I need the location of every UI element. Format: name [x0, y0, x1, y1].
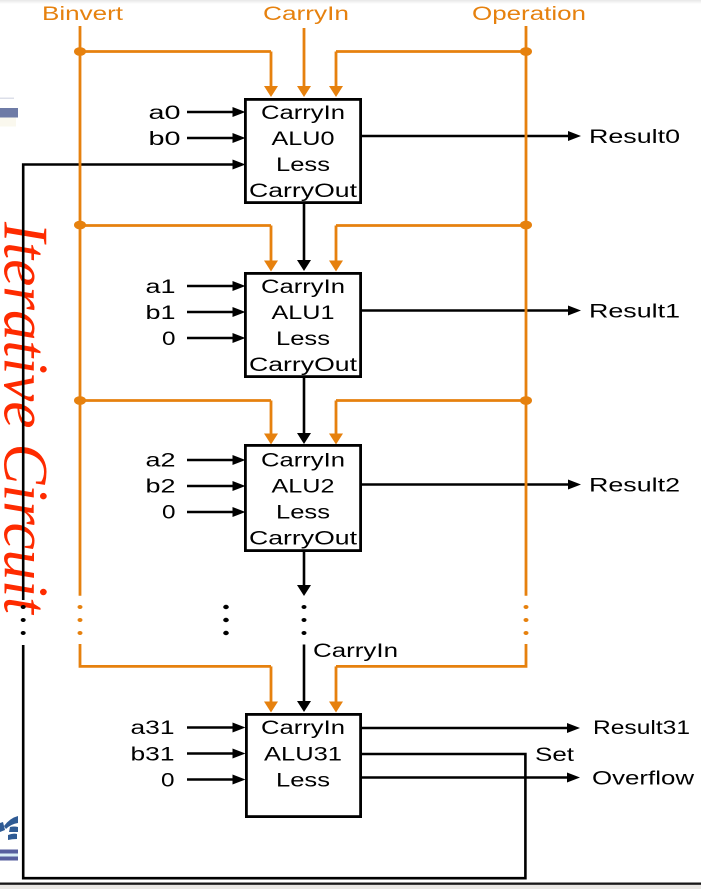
svg-text:ALU2: ALU2: [272, 477, 335, 498]
svg-text:ALU0: ALU0: [272, 129, 335, 150]
svg-text:b2: b2: [146, 477, 176, 498]
svg-text:b31: b31: [131, 745, 175, 766]
svg-text:0: 0: [162, 329, 176, 350]
svg-text:a0: a0: [149, 103, 181, 124]
svg-text:a2: a2: [146, 451, 176, 472]
svg-text:Result1: Result1: [589, 301, 680, 322]
svg-text:Result2: Result2: [589, 475, 680, 496]
svg-text:CarryOut: CarryOut: [249, 355, 358, 376]
svg-text:Set: Set: [535, 745, 575, 766]
svg-text:CarryIn: CarryIn: [263, 4, 349, 25]
svg-text:CarryIn: CarryIn: [261, 451, 345, 472]
svg-text:0: 0: [161, 771, 175, 792]
svg-text:a1: a1: [146, 277, 176, 298]
svg-text:b1: b1: [146, 303, 176, 324]
svg-text:Operation: Operation: [472, 4, 586, 25]
svg-text:a31: a31: [131, 718, 175, 739]
svg-text:Iterative Circuit: Iterative Circuit: [0, 221, 61, 615]
svg-text:Less: Less: [276, 155, 330, 176]
svg-text:Binvert: Binvert: [42, 4, 124, 25]
svg-text:Less: Less: [276, 503, 330, 524]
svg-text:CarryOut: CarryOut: [249, 529, 358, 550]
svg-text:Less: Less: [276, 771, 330, 792]
svg-text:CarryOut: CarryOut: [249, 181, 358, 202]
svg-text:CarryIn: CarryIn: [261, 103, 345, 124]
svg-text:ALU31: ALU31: [264, 745, 342, 766]
svg-text:0: 0: [162, 503, 176, 524]
svg-text:b0: b0: [149, 129, 181, 150]
svg-text:CarryIn: CarryIn: [313, 641, 398, 662]
svg-text:CarryIn: CarryIn: [261, 718, 345, 739]
svg-text:ALU1: ALU1: [272, 303, 335, 324]
svg-text:Result31: Result31: [593, 718, 690, 739]
svg-text:Result0: Result0: [589, 127, 680, 148]
svg-text:Overflow: Overflow: [592, 769, 694, 790]
svg-text:CarryIn: CarryIn: [261, 277, 345, 298]
svg-text:Less: Less: [276, 329, 330, 350]
